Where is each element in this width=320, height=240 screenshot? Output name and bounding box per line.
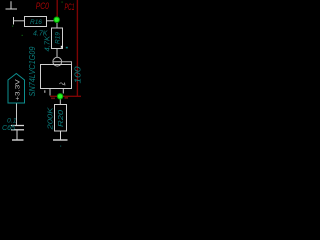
wire [56, 23, 58, 28]
node junction [57, 93, 63, 99]
wire [60, 131, 62, 140]
svg-text:PC0: PC0 [36, 1, 49, 11]
pin number 1 [44, 90, 46, 93]
ground [53, 139, 68, 141]
pin number 2 [51, 98, 55, 100]
svg-text:+3.3V: +3.3V [15, 78, 22, 100]
capacitor C65 [11, 125, 24, 127]
svg-text:SN74LVC1G09: SN74LVC1G09 [28, 46, 37, 96]
ground [12, 139, 24, 141]
wire [53, 62, 72, 65]
resistor R16 [25, 17, 47, 27]
svg-text:100: 100 [72, 66, 82, 83]
svg-text:PC1: PC1 [65, 2, 75, 12]
grid dot [60, 146, 61, 147]
wire [47, 20, 54, 22]
grid dot [62, 2, 63, 3]
pin 2 of U1 [62, 89, 64, 94]
wire [16, 104, 18, 126]
svg-text:C65: C65 [2, 125, 15, 132]
svg-text:4.7K: 4.7K [45, 36, 52, 52]
svg-text:R20: R20 [58, 110, 65, 127]
svg-text:R16: R16 [30, 19, 42, 26]
wire [50, 95, 81, 97]
grid dot [22, 35, 23, 36]
sensor U1 (circle) [53, 57, 62, 66]
resistor R20 [55, 105, 67, 132]
resistor R19 [52, 28, 63, 49]
symbol mark inside U1 [60, 83, 66, 86]
sensor U1 body [41, 65, 72, 89]
wire [14, 20, 25, 22]
svg-text:200K: 200K [46, 106, 55, 130]
node junction PC0 [54, 17, 60, 23]
wire [16, 131, 18, 140]
wire [59, 100, 61, 105]
pin 1 of U1 [49, 89, 51, 96]
terminal (left pin of R16) [13, 17, 15, 25]
pin number 4 [65, 97, 69, 99]
wire PC0 net [56, 0, 58, 18]
wire PC1 net [76, 0, 78, 96]
grid dot [12, 26, 13, 27]
origin marker [61, 46, 63, 48]
svg-text:R19: R19 [55, 32, 62, 44]
svg-text:0.1: 0.1 [7, 118, 17, 125]
power terminal +3.3V [8, 74, 25, 104]
wire [56, 49, 58, 58]
ground [6, 1, 18, 9]
